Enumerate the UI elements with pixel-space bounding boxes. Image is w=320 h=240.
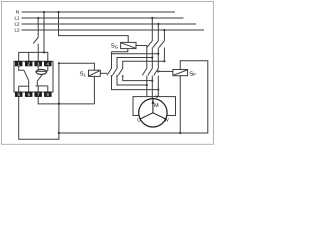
node dot on N	[43, 11, 45, 13]
timer motor lens	[36, 69, 47, 74]
node dot on L3	[163, 29, 165, 31]
crossover wire 1	[111, 52, 113, 68]
node dot	[179, 132, 181, 134]
switch contact in L1 drop	[33, 37, 38, 44]
left contact group pole 2	[113, 68, 118, 75]
contactor contact pole 2	[153, 41, 159, 48]
crossover wire 2	[117, 58, 152, 69]
wire drop from N to bus	[43, 12, 45, 52]
wire switch to terminal 3	[37, 44, 39, 62]
wire drop from L1 to switch	[37, 18, 39, 37]
terminal 4	[44, 61, 52, 66]
motor winding spoke W	[153, 113, 166, 119]
node dot	[163, 60, 165, 62]
rail L2	[22, 23, 197, 25]
contactor contact pole 1	[147, 41, 153, 48]
motor winding spoke V	[152, 99, 154, 113]
svg-text:U: U	[137, 117, 141, 123]
wire S1 top to common node	[59, 63, 95, 70]
right contact group pole 3	[154, 68, 159, 75]
terminal 5	[15, 92, 23, 97]
internal link wire terminals 5-6	[19, 85, 29, 87]
wire drop L2 to contact	[157, 24, 159, 41]
internal stub terminal 3	[37, 66, 39, 70]
rail L1	[22, 17, 184, 19]
svg-text:L2: L2	[14, 22, 20, 27]
terminal 3	[34, 61, 42, 66]
svg-text:W: W	[164, 117, 169, 123]
common control wire down	[58, 63, 60, 133]
wire SG contact to right group pole 1	[146, 46, 148, 69]
contactor contact pole 3	[159, 41, 165, 48]
switch S1	[89, 70, 101, 76]
node dot	[157, 89, 159, 91]
terminal 8	[44, 92, 52, 97]
lower crossover wire from pole2	[117, 76, 147, 85]
terminal 2	[25, 61, 33, 66]
lower crossover wire from pole1	[112, 76, 159, 90]
wire drop L3 to contact	[163, 30, 165, 41]
wire S1 to left contact group	[100, 72, 107, 74]
bus stub to terminal 2	[28, 52, 30, 61]
motor winding spoke arrowhead	[152, 100, 155, 104]
wire pole1 down	[151, 48, 153, 69]
internal stub terminal 7	[37, 86, 39, 92]
left contact group pole 3	[118, 68, 123, 75]
internal wire down	[36, 81, 38, 86]
wire SP coil left	[158, 70, 173, 72]
right contact group pole 2	[148, 68, 153, 75]
relay box outline	[14, 61, 53, 92]
rail L3	[22, 29, 205, 31]
wire SP bottom stub	[179, 76, 181, 133]
right contact group pole 1	[142, 68, 147, 75]
internal link wire terminals 7-8	[36, 85, 48, 87]
motor winding spoke U	[140, 113, 153, 119]
node dot on L1	[37, 17, 39, 19]
motor terminal frame	[133, 97, 176, 116]
internal wire from terminal 1	[19, 66, 24, 70]
internal stub terminal 6	[28, 86, 30, 91]
lower crossover wire from pole3	[123, 76, 153, 81]
internal stub terminal 5	[18, 86, 20, 91]
wire right pole3 to motor	[157, 76, 159, 97]
internal wire from terminal 4	[46, 66, 47, 71]
svg-text:SG: SG	[111, 43, 118, 50]
svg-text:L3: L3	[14, 28, 20, 33]
wire N to SG top	[59, 12, 129, 42]
node dot	[146, 84, 148, 86]
wire terminal7 to common wire	[38, 97, 94, 104]
svg-text:S1: S1	[80, 71, 87, 78]
svg-text:N: N	[16, 10, 19, 15]
rail N	[22, 11, 176, 13]
node dot on L2	[157, 23, 159, 25]
svg-text:L1: L1	[14, 16, 20, 21]
crossover wire 3	[123, 61, 165, 68]
motor M1 body	[139, 99, 167, 127]
node dot	[151, 56, 153, 58]
node dot	[157, 53, 159, 55]
internal wire to terminal 6	[28, 81, 30, 87]
node dot	[58, 62, 60, 64]
node dot	[151, 80, 153, 82]
node dot on L1	[151, 17, 153, 19]
svg-text:SP: SP	[189, 70, 196, 77]
node dot	[157, 70, 159, 72]
svg-text:M: M	[154, 103, 159, 109]
node dot	[58, 102, 60, 104]
wire pole3 down	[163, 48, 165, 62]
switch SP	[173, 70, 188, 76]
node dot common corner	[58, 132, 60, 134]
internal contact left	[24, 70, 29, 80]
lens chord	[36, 70, 47, 72]
wire SG bottom stub	[112, 49, 128, 52]
internal contact right	[37, 74, 42, 81]
terminal 7	[34, 92, 42, 97]
node dot on N	[57, 11, 59, 13]
terminal 1	[15, 61, 23, 66]
border frame	[2, 2, 214, 145]
terminal 6	[25, 92, 33, 97]
wire right pole1 to motor	[146, 76, 148, 97]
wire right pole2 to motor	[151, 76, 153, 99]
wire S1 bottom stub	[93, 76, 95, 104]
switch SG	[121, 42, 136, 48]
left contact group pole 1	[107, 68, 112, 75]
wire SP top loop	[59, 61, 208, 133]
internal stub terminal 8	[47, 86, 49, 92]
node dot bus join	[43, 51, 45, 53]
wire pole2 down	[157, 48, 159, 69]
wire drop L1 to contact	[151, 18, 153, 41]
wire terminal5 to common node	[19, 97, 59, 139]
wire SG to contact group	[136, 45, 147, 47]
bus wire above box	[19, 52, 48, 61]
